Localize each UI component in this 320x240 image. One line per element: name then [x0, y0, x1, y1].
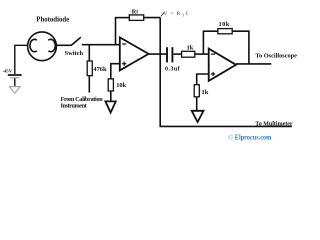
wire U1 feedback top right segment [144, 17, 161, 19]
U1 plus pin [122, 63, 126, 65]
wire switch to op-amp U1 inverting input [82, 44, 120, 46]
svg-text:V = R: V = R [164, 11, 182, 17]
svg-text:Instrument: Instrument [61, 103, 88, 110]
wire U1 output to capacitor [149, 53, 167, 55]
wire U1 feedback tap (up from inverting input) [115, 18, 117, 45]
svg-text:To Oscilloscope: To Oscilloscope [255, 53, 297, 60]
wire output node to multimeter (vertical drop) [159, 54, 161, 126]
ground (battery, grey outline) [10, 87, 21, 94]
wire 10k to ground [110, 91, 112, 104]
resistor 1k (U2 non-inverting) [194, 85, 199, 97]
U2 plus pin [211, 73, 215, 75]
svg-text:0.3uf: 0.3uf [165, 67, 181, 73]
wire U2 output to oscilloscope [236, 63, 271, 65]
wire to multimeter (bottom horizontal) [160, 125, 292, 127]
wire 1k to ground [196, 97, 198, 113]
ground (U2 non-inverting) [192, 111, 204, 122]
junction: wire down to 476k resistor [88, 45, 90, 62]
wire 476k to calibration instrument (open end) [88, 76, 90, 93]
wire photodiode left terminal to -45V battery [15, 45, 28, 74]
wire U2 feedback tap [202, 31, 204, 54]
svg-text:-45V: -45V [3, 68, 13, 73]
svg-text:Photodiode: Photodiode [36, 16, 69, 23]
wire U1 feedback top left segment [115, 17, 130, 19]
svg-text:10k: 10k [219, 21, 230, 28]
op-amp U2 [209, 49, 236, 81]
capacitor 0.3uf [166, 47, 168, 62]
wire U2 non-inverting input to 1k [197, 74, 209, 85]
resistor 10k (U1 non-inverting) [108, 79, 113, 91]
resistor 476k [87, 61, 92, 76]
ground (U1 non-inverting) [105, 101, 115, 112]
battery -45V [8, 74, 22, 76]
U1 minus pin [122, 43, 126, 45]
svg-text:476k: 476k [93, 66, 107, 73]
wire capacitor to 1k resistor [173, 53, 181, 55]
label V = RfI with pointer tick [161, 13, 164, 17]
resistor 1k (series input U2) [182, 51, 195, 57]
U2 minus pin [211, 53, 215, 55]
wire U1 non-inverting input to 10k resistor [111, 64, 120, 79]
switch S1 blade [71, 37, 81, 45]
wire 1k to U2 inverting input [195, 53, 209, 55]
svg-text:Switch: Switch [65, 50, 84, 57]
svg-text:Elprocus.com: Elprocus.com [235, 134, 272, 141]
wire U2 feedback top right and down to output [232, 31, 249, 64]
svg-text:To Multimeter: To Multimeter [255, 121, 293, 127]
wire battery to ground [14, 78, 16, 86]
wire U2 feedback top left segment [203, 30, 218, 32]
svg-text:1k: 1k [187, 44, 194, 51]
wire feedback right vertical down to output node [159, 18, 161, 55]
svg-text:©: © [228, 133, 234, 141]
resistor Rf [129, 15, 143, 21]
svg-text:I: I [186, 11, 188, 17]
svg-text:1k: 1k [202, 89, 209, 96]
wire photodiode right terminal to switch [56, 44, 71, 46]
svg-text:10k: 10k [116, 82, 126, 89]
resistor 10k (U2 feedback) [218, 29, 232, 34]
op-amp U1 [120, 37, 149, 70]
photodiode PD1 [28, 32, 57, 61]
